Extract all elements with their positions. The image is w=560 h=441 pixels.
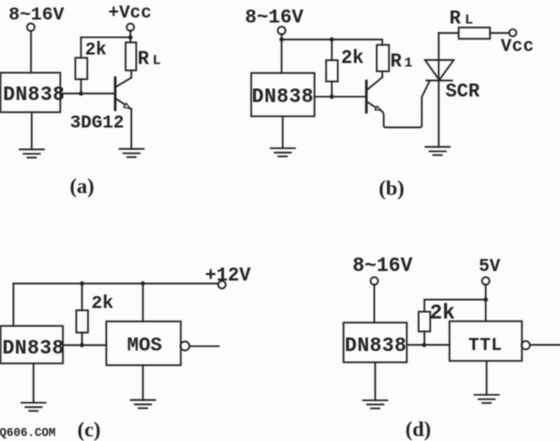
resistor 2k (a) [75,58,87,79]
terminal 8~16V (d) [371,277,379,285]
terminal +Vcc (a) [127,24,134,31]
svg-text:+12V: +12V [205,265,251,287]
ground under MOS (c) [131,400,155,408]
svg-text:SCR: SCR [446,81,481,103]
wire MOS output (c) [189,345,218,347]
wire DN838 to MOS (c) [63,344,106,346]
resistor 2k (b) [326,60,338,81]
wire 2k bottom lead (d) [423,332,425,345]
wire Vcc dot to RL (a) [129,30,131,42]
ground under DN838 (b) [271,148,295,156]
wire 2k bottom lead (a) [80,79,82,93]
IC U1 DN838 (a) [1,73,61,113]
svg-text:(a): (a) [70,174,95,198]
svg-text:2k: 2k [91,293,113,314]
node junction Vcc rail (a) [128,35,132,39]
resistor RL (b) [459,28,490,39]
svg-text:2k: 2k [85,40,107,60]
wire top rail (b) [282,40,383,45]
ground under Q1 (a) [119,149,143,157]
svg-text:Vcc: Vcc [501,37,534,57]
resistor 2k (c) [76,310,88,332]
wire DN838 bottom to ground (b) [282,116,284,148]
node junction rail (b) [279,37,283,41]
svg-text:8~16V: 8~16V [353,255,413,278]
svg-text:DN838: DN838 [3,84,65,107]
wire RL bottom to collector (a) [130,70,132,77]
resistor R1 (b) [377,45,389,71]
terminal 5V (d) [482,277,490,285]
resistor RL (a) [126,42,137,70]
wire terminal to DN838 top (b) [281,34,283,73]
wire DN838 bottom to ground (d) [374,362,376,400]
node junction 5V/2k (d) [484,297,488,301]
wire R1 bottom to collector (b) [381,71,383,77]
svg-text:DN838: DN838 [345,335,407,358]
svg-text:2k: 2k [341,47,364,69]
transistor Q2 (b) [366,77,382,112]
wire DN838 output to transistor base (a) [60,93,114,95]
node junction 2k bottom (d) [422,343,426,347]
node junction 2k top (c) [80,281,84,285]
inverter bubble MOS output (c) [180,342,189,351]
svg-text:+Vcc: +Vcc [108,4,151,24]
wire terminal to DN838 top (a) [30,31,32,73]
svg-text:Q606.COM: Q606.COM [0,426,56,440]
wire 2k bottom lead (b) [331,82,333,97]
ground under DN838 (d) [363,400,387,408]
terminal 8~16V (a) [27,23,35,31]
node junction base/2k (a) [79,91,83,95]
IC U2 DN838 (b) [251,73,314,116]
node junction MOS top (c) [141,281,145,285]
svg-text:5V: 5V [479,257,501,277]
ground under SCR (b) [426,147,450,155]
svg-text:DN838: DN838 [252,86,314,109]
terminal +12V (c) [218,281,226,289]
IC U4 MOS (c) [106,321,181,365]
wire emitter to ground (a) [130,109,132,149]
wire TTL output (d) [530,344,560,346]
wire terminal to DN838 top (d) [373,285,375,323]
IC U5 DN838 (d) [344,323,407,363]
wire DN838 bottom to ground (c) [33,363,35,402]
wire MOS bottom to ground (c) [142,365,144,400]
svg-text:MOS: MOS [127,335,162,357]
svg-text:DN838: DN838 [2,337,64,360]
IC U3 DN838 (c) [1,326,63,364]
node junction 2k top (b) [330,37,334,41]
IC U6 TTL (d) [450,321,522,361]
transistor Q1 3DG12 (a) [115,78,131,110]
svg-text:3DG12: 3DG12 [70,114,124,134]
svg-text:8~16V: 8~16V [245,7,304,29]
wire +12V rail (c) [13,284,218,326]
ground under TTL (d) [475,395,499,403]
wire 2k top lead (a) [80,37,82,58]
wire 2k bottom lead (c) [81,333,83,346]
svg-text:TTL: TTL [468,336,502,356]
node junction 2k bottom (b) [330,95,334,99]
wire 5V to 2k top (d) [424,300,485,312]
wire 2k top lead (c) [81,284,83,311]
ground under DN838 (a) [20,149,44,157]
svg-text:(c): (c) [77,418,100,441]
terminal 8~16V (b) [278,27,286,35]
inverter bubble TTL output (d) [522,341,530,349]
wire RL to Vcc terminal (b) [490,32,509,34]
resistor 2k (d) [419,312,431,332]
svg-text:(b): (b) [379,176,405,200]
wire SCR anode to RL (b) [439,32,459,34]
terminal Vcc (b) [509,29,516,36]
wire MOS top to rail (c) [142,284,144,322]
wire top rail (a) [81,36,130,38]
svg-text:(d): (d) [405,417,431,441]
wire 5V to TTL top (d) [485,285,487,322]
node junction DN838-MOS wire (c) [80,343,84,347]
wire DN838 bottom to ground (a) [31,112,33,149]
wire DN838 to TTL (d) [407,344,450,346]
wire emitter to SCR gate (b) [381,81,430,127]
svg-text:8~16V: 8~16V [9,5,65,26]
ground under DN838 (c) [21,403,45,411]
wire TTL bottom to ground (d) [486,361,488,395]
wire DN838 output to base (b) [315,96,366,98]
SCR thyristor (b) [425,33,454,147]
wire 2k top lead (b) [331,40,333,61]
